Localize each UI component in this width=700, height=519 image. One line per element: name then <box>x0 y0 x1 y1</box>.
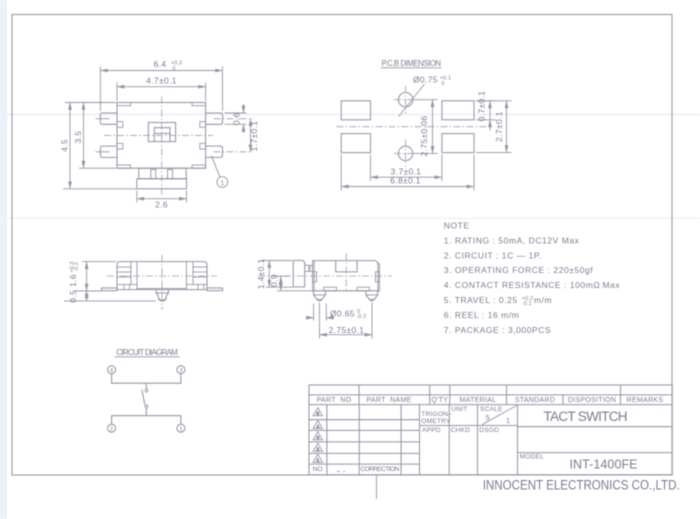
side2 leg tip ext left pair <box>313 304 315 321</box>
dim 0.6 ext bottom <box>225 123 247 125</box>
pin centerline top-right <box>214 118 254 120</box>
dim 3.7 ext right <box>441 155 443 182</box>
side2 neck <box>305 264 313 266</box>
actuator base <box>137 179 187 189</box>
pcb pad top-right <box>442 101 474 120</box>
svg-text:2: 2 <box>316 447 319 453</box>
dim 4.7 line <box>117 86 206 88</box>
terminal 1 <box>177 424 185 432</box>
svg-text:REMARKS: REMARKS <box>627 397 664 404</box>
dim 2.6 ext left <box>136 191 138 203</box>
svg-text:1.4±0.1: 1.4±0.1 <box>256 258 266 289</box>
dim 2.7 line <box>506 101 508 153</box>
dim 2.75 line <box>432 100 434 154</box>
side1 dim ticks <box>82 261 116 263</box>
svg-text:m/m: m/m <box>534 295 552 305</box>
center feature inner line <box>154 133 170 135</box>
top view horizontal centerline <box>104 134 213 136</box>
svg-text:CIRCUIT DIAGRAM: CIRCUIT DIAGRAM <box>116 348 178 357</box>
center feature outer rect <box>148 123 175 142</box>
side2 dim 0.65 arrows <box>306 317 314 319</box>
svg-text:0.9: 0.9 <box>269 274 279 287</box>
svg-text:CHKD: CHKD <box>451 427 471 434</box>
dim 4.5 tick bottom <box>63 188 136 190</box>
top view pin top-left <box>100 113 117 124</box>
svg-text:NOTE: NOTE <box>444 221 470 231</box>
side1 left stripes <box>118 266 132 268</box>
svg-text:4.7±0.1: 4.7±0.1 <box>146 76 177 86</box>
svg-text:PART NO: PART NO <box>317 397 352 404</box>
svg-text:2: 2 <box>110 427 113 433</box>
pcb horizontal centerline <box>337 126 493 128</box>
side1 right inner vertical b <box>185 262 187 290</box>
dim 0.7 ext top <box>476 100 496 102</box>
svg-text:DSGD: DSGD <box>479 427 499 434</box>
top view corner notch BL <box>117 165 131 168</box>
svg-text:0: 0 <box>442 81 445 87</box>
side1 right inner vertical a <box>192 262 194 285</box>
top view pin bottom-left <box>100 146 117 157</box>
side2 body inner right edge <box>377 263 379 291</box>
svg-text:DISPOSITION: DISPOSITION <box>568 397 616 404</box>
svg-text:STANDARD: STANDARD <box>515 397 555 404</box>
svg-text:1: 1 <box>316 458 319 464</box>
inner tab bottom-right <box>200 143 206 149</box>
svg-text:CORRECTION: CORRECTION <box>361 466 400 473</box>
dim 2.7 ext top <box>476 100 512 102</box>
svg-text:3. OPERATING FORCE : 220±50gf: 3. OPERATING FORCE : 220±50gf <box>444 265 594 275</box>
top view corner notch BR <box>192 165 206 168</box>
side2 body outline <box>313 261 380 291</box>
svg-text:1.6: 1.6 <box>68 274 78 287</box>
side2 left tab <box>313 272 317 282</box>
terminal 2 <box>108 424 116 432</box>
pcb hole bottom <box>398 146 412 160</box>
svg-text:1: 1 <box>220 180 224 187</box>
body verticals <box>326 405 328 475</box>
svg-text:7. PACKAGE : 3,000PCS: 7. PACKAGE : 3,000PCS <box>444 325 551 335</box>
svg-text:APPD: APPD <box>422 427 441 434</box>
header texts <box>317 397 664 404</box>
svg-text:P.C.B DIMENSION: P.C.B DIMENSION <box>382 59 442 68</box>
dim 3.5 line <box>83 103 85 169</box>
side1 right lower shelf <box>186 283 207 285</box>
svg-text:5: 5 <box>316 411 319 417</box>
pcb hole top centerlines <box>405 86 407 114</box>
dim 6.8 ext left <box>340 155 342 191</box>
pcb hole top <box>398 93 412 107</box>
top view corner notch TL <box>117 103 131 106</box>
side2 leg right <box>366 291 378 301</box>
revision triangle 1 <box>313 454 322 463</box>
horizontal scan band 1 <box>0 114 700 116</box>
horizontal scan band 2 <box>0 217 700 219</box>
dim 2.7 ext bottom <box>476 152 512 154</box>
side2 right tab <box>375 272 379 282</box>
svg-text:6.8±0.1: 6.8±0.1 <box>390 176 421 186</box>
svg-text:0.7±0.1: 0.7±0.1 <box>477 91 487 122</box>
left scan band <box>0 0 7 519</box>
side2 leg left <box>314 291 326 301</box>
dim 0.6 ext top <box>225 112 247 114</box>
svg-text:3.5: 3.5 <box>73 131 83 144</box>
side1 pin left <box>102 288 117 291</box>
dim 3.7 ext left <box>370 155 372 182</box>
side2 dim 0.9 line <box>280 276 282 291</box>
svg-text:Ø0.75: Ø0.75 <box>413 75 438 85</box>
circuit title underline <box>115 356 180 358</box>
inner tab top-right <box>200 122 206 128</box>
center feature inner U <box>154 128 170 142</box>
svg-text:2. CIRCUIT : 1C — 1P.: 2. CIRCUIT : 1C — 1P. <box>444 250 542 260</box>
revision triangle 3 <box>313 432 322 441</box>
svg-text:-0.2: -0.2 <box>74 262 80 272</box>
svg-text:OMETRY: OMETRY <box>421 418 451 425</box>
side2 bottom tab left <box>324 287 337 291</box>
side1 left inner vertical b <box>136 262 138 290</box>
svg-text:0: 0 <box>173 66 176 72</box>
svg-text:INNOCENT ELECTRONICS CO.,LTD.: INNOCENT ELECTRONICS CO.,LTD. <box>483 477 680 492</box>
svg-text:6.4: 6.4 <box>154 59 167 69</box>
svg-text:2.7±0.1: 2.7±0.1 <box>494 111 504 142</box>
dim 0.7 line <box>489 101 491 120</box>
pin centerline top-left <box>96 118 110 120</box>
switch contact upper <box>145 389 148 392</box>
hole dia leader <box>399 84 425 117</box>
header verticals <box>358 385 360 405</box>
svg-text:2.75±0.06: 2.75±0.06 <box>419 116 429 157</box>
side1 horizontal centerline <box>107 275 217 277</box>
dim 2.6 line <box>137 198 187 200</box>
revision triangle 2 <box>313 443 322 452</box>
balloon 1 <box>217 177 228 188</box>
side1 boss <box>156 290 168 293</box>
dim 4.7 ext right <box>205 83 207 102</box>
top view pin bottom-right <box>206 146 223 157</box>
side2 bottom tab right <box>357 287 369 291</box>
svg-text:1. RATING : 50mA, DC12V Max: 1. RATING : 50mA, DC12V Max <box>444 235 580 245</box>
switch contact lower <box>145 405 148 408</box>
svg-text:2.6: 2.6 <box>155 200 168 210</box>
middle cell line <box>420 425 518 427</box>
balloon 1 leader <box>212 156 220 177</box>
dim 4.5 line <box>69 103 71 189</box>
pcb pad bottom-left <box>341 134 370 153</box>
side2 horizontal centerline <box>258 275 392 277</box>
side2 leg center ext <box>319 303 321 339</box>
svg-text:MODEL: MODEL <box>520 454 544 461</box>
fold mark line below title block <box>376 475 378 499</box>
dim 0.7 ext bottom <box>476 119 496 121</box>
svg-text:6. REEL : 16 m/m: 6. REEL : 16 m/m <box>444 310 520 320</box>
dim 0.6 line <box>243 104 245 113</box>
dim 4.5 tick top <box>65 102 116 104</box>
svg-text:TACT SWITCH: TACT SWITCH <box>544 409 628 424</box>
svg-text:NO: NO <box>313 466 323 473</box>
svg-text:4.5: 4.5 <box>60 139 70 152</box>
dim 2.75 ext top <box>414 99 438 101</box>
dim 6.8 ext right <box>473 155 475 191</box>
side1 left inner vertical a <box>130 262 132 285</box>
switch blade <box>142 390 145 405</box>
title block header lines <box>309 394 672 396</box>
svg-text:4: 4 <box>316 424 319 430</box>
actuator stem slot left <box>151 170 156 179</box>
dim 3.5 tick bottom <box>79 167 116 169</box>
wire bottom stem <box>145 408 147 416</box>
dim 6.8 line <box>341 186 474 188</box>
dim 6.4 ext left <box>99 67 101 112</box>
svg-text:1: 1 <box>506 416 510 425</box>
svg-text:2.75±0.1: 2.75±0.1 <box>329 325 365 335</box>
wire top bracket <box>112 374 181 383</box>
side1 dim 1.6 line <box>86 262 88 291</box>
dim 3.7 line <box>371 176 442 178</box>
dim 4.7 ext left <box>116 83 118 102</box>
dim 2.75 ext bottom <box>414 152 438 154</box>
side1 pin right <box>207 288 223 291</box>
svg-text:0.6: 0.6 <box>232 112 242 125</box>
wire bottom bracket <box>112 416 181 425</box>
svg-text:5. TRAVEL : 0.25: 5. TRAVEL : 0.25 <box>444 295 518 305</box>
top view corner notch TR <box>192 103 206 106</box>
side2 button <box>293 260 305 287</box>
side2 top notch <box>336 261 357 272</box>
svg-text:1: 1 <box>179 427 182 433</box>
svg-text:4. CONTACT RESISTANCE : 100m: 4. CONTACT RESISTANCE : 100mΩ Max <box>444 280 621 290</box>
svg-text:UNIT: UNIT <box>451 406 467 413</box>
svg-text:TRIGON–: TRIGON– <box>421 411 452 418</box>
revision triangle 5 <box>313 408 322 417</box>
dim 6.4 ext right <box>222 67 224 112</box>
dim 2.6 ext right <box>186 191 188 203</box>
pin centerline bottom-right <box>214 151 254 153</box>
top view body outline <box>117 103 206 169</box>
svg-text:MATERIAL: MATERIAL <box>460 397 497 404</box>
dim 1.7 line <box>250 119 252 152</box>
svg-text:0.5: 0.5 <box>68 290 78 303</box>
actuator stem <box>139 168 186 179</box>
terminal 4 <box>108 366 116 374</box>
dim 6.4 line <box>100 70 222 72</box>
side1 left lower shelf <box>117 283 137 285</box>
top view vertical centerline <box>161 97 163 196</box>
side2 body inner left edge <box>313 261 315 291</box>
pcb pad top-left <box>341 101 370 120</box>
side2 vertical centerline <box>345 254 347 293</box>
revision triangle 4 <box>313 421 322 430</box>
side1 body outline <box>117 262 207 290</box>
side2 dim 1.4 line <box>268 261 270 288</box>
svg-text:3: 3 <box>316 435 319 441</box>
inner tab top-left <box>117 122 123 128</box>
actuator stem slot right <box>168 170 173 179</box>
svg-text:Ø0.65: Ø0.65 <box>330 309 355 319</box>
side1 vertical centerline <box>161 255 163 310</box>
wire top stem <box>145 383 147 389</box>
pin centerline bottom-left <box>96 151 110 153</box>
pcb hole bottom centerlines <box>405 140 407 168</box>
svg-text:1.7±0.1: 1.7±0.1 <box>249 121 259 152</box>
side1 right stripes <box>193 266 207 268</box>
side1 dim 0.5 line <box>86 291 88 301</box>
pcb title underline <box>381 67 442 69</box>
left section row lines <box>309 419 420 421</box>
title block outer <box>309 385 672 475</box>
svg-text:4: 4 <box>110 368 113 374</box>
side1 center cavity bottom <box>137 287 186 289</box>
svg-text:Q'TY: Q'TY <box>431 397 448 404</box>
side2 dim ticks <box>261 260 292 262</box>
svg-text:SCALE: SCALE <box>480 406 503 413</box>
svg-text:-0.1: -0.1 <box>522 301 532 307</box>
svg-text:PART NAME: PART NAME <box>366 397 411 404</box>
right section lines <box>518 426 673 428</box>
svg-text:INT-1400FE: INT-1400FE <box>570 457 638 471</box>
inner tab bottom-left <box>117 143 123 149</box>
terminal 3 <box>177 366 185 374</box>
scale slash <box>482 406 517 425</box>
svg-text:3: 3 <box>179 368 182 374</box>
top view pin top-right <box>206 113 223 124</box>
side2 dim 2.75 line <box>320 334 373 336</box>
pcb pad bottom-right <box>442 134 474 153</box>
svg-text:-0.2: -0.2 <box>357 314 367 320</box>
